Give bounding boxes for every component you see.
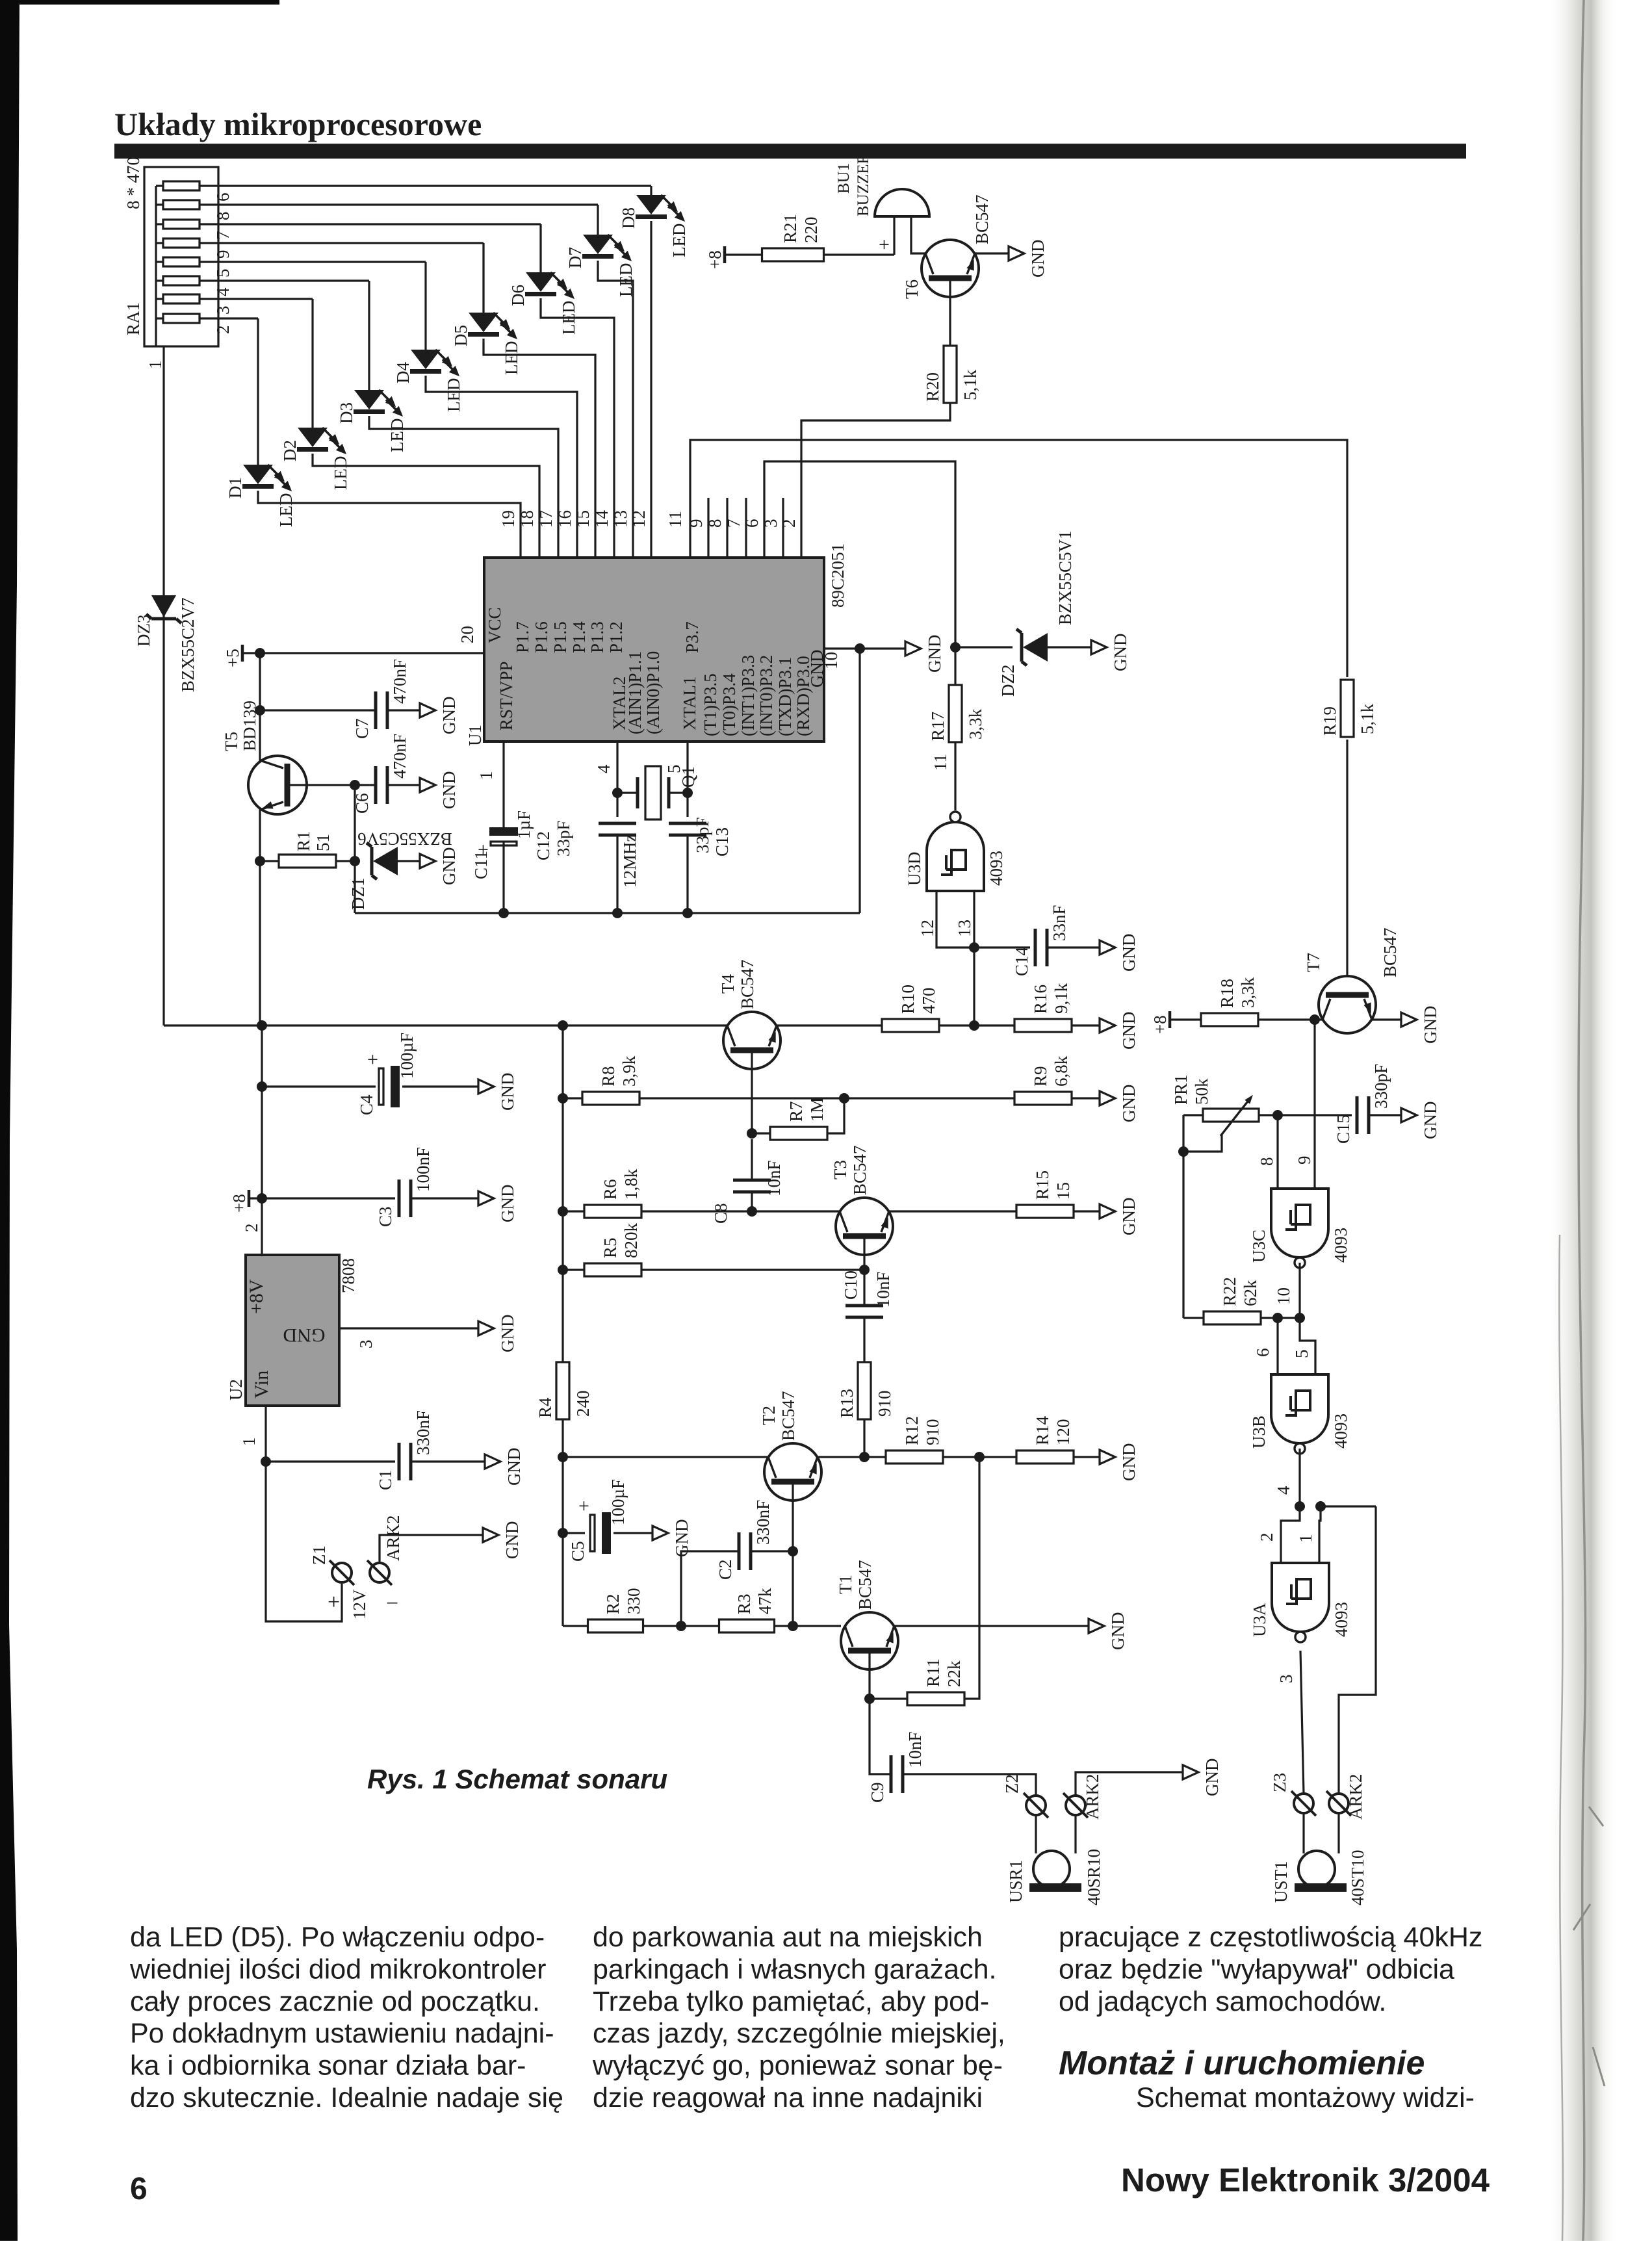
svg-text:C7: C7 xyxy=(352,718,372,739)
svg-text:BD139: BD139 xyxy=(240,701,259,751)
svg-text:910: 910 xyxy=(875,1391,894,1417)
svg-text:VCC: VCC xyxy=(485,607,504,643)
svg-text:od jadących samochodów.: od jadących samochodów. xyxy=(1059,1986,1386,2017)
svg-text:R22: R22 xyxy=(1220,1277,1239,1306)
svg-text:C14: C14 xyxy=(1012,946,1031,976)
svg-text:470nF: 470nF xyxy=(390,734,409,779)
svg-text:(T0)P3.4: (T0)P3.4 xyxy=(719,673,739,736)
svg-text:LED: LED xyxy=(444,378,463,412)
svg-text:GND: GND xyxy=(1119,1085,1139,1123)
svg-text:R21: R21 xyxy=(781,214,800,243)
svg-text:R17: R17 xyxy=(928,712,948,741)
svg-text:C15: C15 xyxy=(1334,1115,1353,1144)
svg-text:BUZZER: BUZZER xyxy=(855,153,872,216)
svg-text:470nF: 470nF xyxy=(390,659,409,704)
svg-text:10nF: 10nF xyxy=(905,1731,925,1768)
svg-text:DZ3: DZ3 xyxy=(134,615,153,647)
svg-text:330: 330 xyxy=(624,1588,643,1615)
svg-text:Z2: Z2 xyxy=(1002,1774,1022,1794)
svg-text:D7: D7 xyxy=(565,247,585,268)
svg-text:89C2051: 89C2051 xyxy=(828,543,847,608)
svg-text:R8: R8 xyxy=(599,1066,618,1087)
svg-text:(TXD)P3.1: (TXD)P3.1 xyxy=(775,657,795,736)
svg-text:Q1: Q1 xyxy=(678,766,698,788)
svg-text:18: 18 xyxy=(517,510,537,528)
svg-text:R4: R4 xyxy=(536,1397,555,1418)
svg-text:Rys. 1 Schemat sonaru: Rys. 1 Schemat sonaru xyxy=(367,1764,667,1794)
svg-text:D6: D6 xyxy=(508,285,528,306)
svg-text:RA1: RA1 xyxy=(123,302,143,335)
svg-text:1: 1 xyxy=(1296,1534,1315,1543)
svg-text:BC547: BC547 xyxy=(850,1145,870,1195)
svg-text:pracujące z częstotliwością 40: pracujące z częstotliwością 40kHz xyxy=(1059,1922,1482,1953)
svg-text:13: 13 xyxy=(955,920,974,937)
svg-text:1: 1 xyxy=(146,361,165,370)
svg-text:1µF: 1µF xyxy=(514,810,534,839)
svg-text:2: 2 xyxy=(1257,1533,1276,1542)
svg-text:LED: LED xyxy=(502,341,521,375)
svg-text:BZX55C2V7: BZX55C2V7 xyxy=(178,597,198,692)
svg-text:40ST10: 40ST10 xyxy=(1348,1850,1367,1905)
svg-text:ARK2: ARK2 xyxy=(1083,1773,1102,1820)
svg-text:6: 6 xyxy=(130,2172,148,2206)
svg-text:BZX55C5V1: BZX55C5V1 xyxy=(1055,530,1075,625)
svg-text:16: 16 xyxy=(555,510,574,528)
svg-text:USR1: USR1 xyxy=(1006,1860,1026,1903)
svg-text:+5: +5 xyxy=(223,649,242,667)
svg-text:LED: LED xyxy=(387,419,407,452)
svg-text:7808: 7808 xyxy=(339,1258,358,1293)
svg-text:GND: GND xyxy=(1119,1443,1139,1482)
svg-text:40SR10: 40SR10 xyxy=(1084,1849,1103,1905)
svg-text:5: 5 xyxy=(1292,1350,1311,1359)
svg-text:dzo skutecznie. Idealnie nadaj: dzo skutecznie. Idealnie nadaje się xyxy=(130,2082,563,2113)
svg-text:D3: D3 xyxy=(337,402,356,424)
svg-text:C5: C5 xyxy=(568,1541,587,1562)
svg-text:10: 10 xyxy=(1274,1287,1293,1305)
svg-text:LED: LED xyxy=(276,493,296,527)
svg-text:GND: GND xyxy=(504,1448,524,1486)
svg-text:1: 1 xyxy=(239,1438,259,1447)
svg-text:+: + xyxy=(578,1495,589,1517)
svg-text:33pF: 33pF xyxy=(693,817,712,853)
svg-text:C1: C1 xyxy=(376,1469,395,1490)
svg-text:parkingach i własnych garażach: parkingach i własnych garażach. xyxy=(593,1954,996,1985)
svg-text:U1: U1 xyxy=(465,725,485,746)
svg-text:15: 15 xyxy=(573,510,593,528)
svg-text:U2: U2 xyxy=(226,1379,246,1400)
svg-text:oraz będzie "wyłapywał" odbici: oraz będzie "wyłapywał" odbicia xyxy=(1059,1954,1454,1985)
svg-text:2: 2 xyxy=(242,1224,261,1233)
svg-text:ARK2: ARK2 xyxy=(383,1515,403,1561)
svg-text:UST1: UST1 xyxy=(1271,1861,1291,1903)
svg-text:T7: T7 xyxy=(1304,953,1323,972)
svg-text:Nowy Elektronik 3/2004: Nowy Elektronik 3/2004 xyxy=(1121,2161,1490,2199)
svg-text:XTAL2: XTAL2 xyxy=(610,677,629,730)
svg-text:P3.7: P3.7 xyxy=(682,621,702,653)
svg-text:10nF: 10nF xyxy=(873,1271,893,1308)
svg-text:T6: T6 xyxy=(902,279,922,299)
svg-text:9,1k: 9,1k xyxy=(1052,983,1071,1014)
svg-text:T1: T1 xyxy=(836,1575,855,1594)
svg-text:9: 9 xyxy=(213,250,233,259)
svg-text:dzie reagował na inne nadajnik: dzie reagował na inne nadajniki xyxy=(593,2082,983,2113)
svg-text:C3: C3 xyxy=(376,1206,395,1227)
svg-text:BZX55C5V6: BZX55C5V6 xyxy=(357,829,452,849)
svg-text:Trzeba tylko pamiętać, aby pod: Trzeba tylko pamiętać, aby pod- xyxy=(593,1986,989,2017)
svg-text:GND: GND xyxy=(498,1185,517,1223)
svg-text:7: 7 xyxy=(213,231,233,240)
svg-text:C13: C13 xyxy=(712,827,732,857)
svg-text:330nF: 330nF xyxy=(753,1500,773,1545)
svg-text:Układy mikroprocesorowe: Układy mikroprocesorowe xyxy=(114,106,482,142)
svg-text:Vin: Vin xyxy=(251,1371,272,1399)
svg-text:(INT1)P3.3: (INT1)P3.3 xyxy=(738,655,758,736)
svg-text:R7: R7 xyxy=(786,1101,806,1122)
svg-text:820k: 820k xyxy=(621,1223,641,1259)
svg-text:13: 13 xyxy=(611,510,630,528)
svg-text:Z3: Z3 xyxy=(1270,1773,1289,1792)
svg-text:C12: C12 xyxy=(534,831,553,860)
svg-text:6,8k: 6,8k xyxy=(1052,1055,1071,1087)
svg-text:GND: GND xyxy=(1119,1012,1139,1050)
svg-text:GND: GND xyxy=(925,635,944,673)
svg-text:4093: 4093 xyxy=(1331,1413,1350,1449)
svg-text:D8: D8 xyxy=(619,207,638,229)
svg-text:3: 3 xyxy=(356,1340,376,1349)
svg-text:R18: R18 xyxy=(1217,979,1237,1008)
svg-text:2: 2 xyxy=(213,326,233,335)
svg-text:Schemat montażowy widzi-: Schemat montażowy widzi- xyxy=(1136,2082,1475,2113)
svg-text:47k: 47k xyxy=(755,1588,775,1614)
svg-text:P1.4: P1.4 xyxy=(569,621,589,653)
svg-text:R2: R2 xyxy=(603,1593,623,1614)
svg-text:(INT0)P3.2: (INT0)P3.2 xyxy=(756,655,776,736)
svg-text:T4: T4 xyxy=(718,974,738,994)
svg-text:12MHz: 12MHz xyxy=(620,834,639,888)
svg-text:R11: R11 xyxy=(923,1658,943,1687)
svg-text:ARK2: ARK2 xyxy=(1346,1773,1365,1820)
svg-text:GND: GND xyxy=(498,1073,517,1111)
svg-text:3,3k: 3,3k xyxy=(1238,977,1258,1008)
svg-text:cały proces zacznie od początk: cały proces zacznie od początku. xyxy=(130,1986,540,2017)
svg-text:C8: C8 xyxy=(711,1203,730,1224)
svg-text:8 * 470: 8 * 470 xyxy=(123,157,143,209)
svg-text:3: 3 xyxy=(1276,1675,1296,1684)
svg-text:DZ2: DZ2 xyxy=(998,665,1018,697)
svg-text:do parkowania aut na miejskich: do parkowania aut na miejskich xyxy=(593,1922,983,1953)
svg-text:ka i odbiornika sonar działa b: ka i odbiornika sonar działa bar- xyxy=(130,2050,526,2082)
svg-text:GND: GND xyxy=(1111,634,1130,672)
svg-text:P1.3: P1.3 xyxy=(587,621,607,653)
svg-text:1,8k: 1,8k xyxy=(621,1168,641,1200)
svg-text:4: 4 xyxy=(213,287,233,296)
svg-text:U3C: U3C xyxy=(1249,1230,1269,1263)
svg-text:+8: +8 xyxy=(1150,1015,1170,1034)
svg-text:R6: R6 xyxy=(600,1179,620,1200)
svg-text:220: 220 xyxy=(801,217,821,244)
svg-text:C10: C10 xyxy=(841,1270,860,1300)
svg-text:6: 6 xyxy=(1253,1348,1272,1358)
svg-text:14: 14 xyxy=(592,510,612,528)
svg-text:P1.5: P1.5 xyxy=(550,621,570,653)
svg-text:4093: 4093 xyxy=(1331,1228,1350,1263)
svg-text:R16: R16 xyxy=(1031,985,1050,1014)
svg-text:U3D: U3D xyxy=(905,852,924,886)
svg-text:GND: GND xyxy=(439,697,459,735)
svg-text:100nF: 100nF xyxy=(413,1147,433,1192)
svg-text:+8V: +8V xyxy=(246,1279,267,1314)
svg-text:8: 8 xyxy=(213,212,233,221)
svg-text:50k: 50k xyxy=(1192,1078,1211,1105)
svg-text:Po dokładnym ustawieniu nadajn: Po dokładnym ustawieniu nadajni- xyxy=(130,2018,554,2049)
svg-text:62k: 62k xyxy=(1241,1280,1260,1306)
svg-text:120: 120 xyxy=(1053,1419,1073,1446)
svg-text:11: 11 xyxy=(931,754,950,771)
svg-text:DZ1: DZ1 xyxy=(348,878,368,910)
svg-text:D5: D5 xyxy=(451,325,471,346)
svg-text:4093: 4093 xyxy=(1332,1602,1351,1637)
svg-text:5,1k: 5,1k xyxy=(961,369,980,400)
svg-text:T5: T5 xyxy=(222,732,241,751)
svg-text:9: 9 xyxy=(1295,1156,1314,1165)
svg-text:RST/VPP: RST/VPP xyxy=(497,661,516,730)
svg-text:6: 6 xyxy=(213,193,233,202)
svg-text:19: 19 xyxy=(498,510,518,528)
svg-text:17: 17 xyxy=(536,510,556,528)
svg-text:P1.2: P1.2 xyxy=(606,621,626,653)
svg-text:GND: GND xyxy=(1421,1102,1440,1140)
svg-text:1M: 1M xyxy=(807,1097,827,1122)
svg-text:12V: 12V xyxy=(350,1589,369,1619)
svg-text:LED: LED xyxy=(331,456,350,490)
svg-text:D4: D4 xyxy=(393,362,413,383)
svg-text:Z1: Z1 xyxy=(309,1545,329,1565)
svg-text:BC547: BC547 xyxy=(738,959,757,1009)
svg-text:C9: C9 xyxy=(868,1782,887,1803)
svg-text:wyłączyć go, ponieważ sonar bę: wyłączyć go, ponieważ sonar bę- xyxy=(592,2050,1003,2082)
svg-text:R3: R3 xyxy=(734,1593,754,1614)
svg-text:240: 240 xyxy=(573,1391,593,1417)
svg-text:T3: T3 xyxy=(831,1160,850,1180)
svg-text:3: 3 xyxy=(213,306,233,315)
svg-text:+: + xyxy=(367,1049,378,1070)
svg-text:R15: R15 xyxy=(1033,1170,1052,1200)
svg-text:GND: GND xyxy=(439,847,459,886)
svg-text:GND: GND xyxy=(502,1521,522,1560)
svg-text:330nF: 330nF xyxy=(413,1410,433,1455)
svg-text:10nF: 10nF xyxy=(764,1160,784,1196)
svg-text:+8: +8 xyxy=(229,1194,249,1213)
svg-text:33pF: 33pF xyxy=(554,820,573,857)
svg-text:GND: GND xyxy=(1421,1006,1440,1044)
svg-text:8: 8 xyxy=(1257,1157,1276,1167)
svg-text:P1.7: P1.7 xyxy=(513,621,532,653)
svg-text:910: 910 xyxy=(923,1419,942,1446)
svg-text:U3A: U3A xyxy=(1250,1603,1269,1637)
svg-text:330pF: 330pF xyxy=(1371,1064,1391,1109)
svg-text:10: 10 xyxy=(821,652,841,669)
svg-text:wiedniej ilości diod mikrokont: wiedniej ilości diod mikrokontroler xyxy=(129,1954,547,1985)
svg-text:GND: GND xyxy=(439,771,459,810)
svg-text:U3B: U3B xyxy=(1249,1415,1269,1449)
svg-text:+: + xyxy=(328,1590,340,1614)
svg-text:GND: GND xyxy=(498,1315,517,1353)
svg-text:GND: GND xyxy=(1202,1759,1222,1797)
svg-text:5: 5 xyxy=(213,269,233,278)
svg-text:P1.6: P1.6 xyxy=(532,621,551,653)
svg-text:R10: R10 xyxy=(898,985,918,1014)
svg-text:R12: R12 xyxy=(902,1416,922,1445)
svg-text:BU1: BU1 xyxy=(835,163,853,194)
svg-text:100µF: 100µF xyxy=(608,1479,628,1525)
svg-text:33nF: 33nF xyxy=(1050,905,1069,941)
svg-text:GND: GND xyxy=(283,1324,326,1346)
svg-text:da LED (D5). Po włączeniu odpo: da LED (D5). Po włączeniu odpo- xyxy=(130,1922,545,1953)
svg-text:BC547: BC547 xyxy=(1380,927,1400,977)
svg-text:D1: D1 xyxy=(226,477,245,498)
svg-text:GND: GND xyxy=(1119,934,1139,972)
svg-text:12: 12 xyxy=(629,510,649,528)
svg-text:22k: 22k xyxy=(944,1660,964,1687)
svg-text:+: + xyxy=(879,234,890,255)
svg-text:BC547: BC547 xyxy=(855,1560,875,1610)
svg-text:20: 20 xyxy=(458,626,477,643)
svg-text:+8: +8 xyxy=(705,250,725,269)
svg-text:11: 11 xyxy=(665,511,685,528)
svg-text:GND: GND xyxy=(1119,1198,1139,1236)
svg-text:LED: LED xyxy=(669,224,689,257)
svg-text:4: 4 xyxy=(594,764,613,773)
svg-text:4: 4 xyxy=(1274,1486,1293,1495)
svg-text:100µF: 100µF xyxy=(397,1033,417,1079)
svg-text:12: 12 xyxy=(918,920,937,937)
svg-text:BC547: BC547 xyxy=(779,1391,798,1441)
svg-text:R14: R14 xyxy=(1033,1415,1052,1445)
svg-text:R13: R13 xyxy=(837,1389,857,1418)
svg-text:(T1)P3.5: (T1)P3.5 xyxy=(701,673,720,736)
svg-text:GND: GND xyxy=(1108,1612,1128,1651)
svg-text:Montaż i uruchomienie: Montaż i uruchomienie xyxy=(1059,2044,1425,2082)
svg-text:(AIN0)P1.0: (AIN0)P1.0 xyxy=(643,651,663,734)
svg-text:C4: C4 xyxy=(357,1094,376,1115)
svg-text:15: 15 xyxy=(1053,1182,1073,1200)
svg-text:T2: T2 xyxy=(759,1406,779,1425)
svg-text:XTAL1: XTAL1 xyxy=(680,677,699,730)
svg-text:BC547: BC547 xyxy=(972,194,992,244)
svg-text:GND: GND xyxy=(1028,240,1048,278)
svg-text:470: 470 xyxy=(919,988,938,1014)
svg-text:3,9k: 3,9k xyxy=(619,1055,639,1087)
svg-text:C2: C2 xyxy=(716,1559,735,1580)
svg-text:czas jazdy, szczególnie miejsk: czas jazdy, szczególnie miejskiej, xyxy=(593,2018,1005,2049)
svg-text:5,1k: 5,1k xyxy=(1358,703,1377,734)
svg-text:R5: R5 xyxy=(600,1237,620,1258)
svg-text:D2: D2 xyxy=(280,440,300,461)
svg-text:C11: C11 xyxy=(471,851,491,879)
svg-text:PR1: PR1 xyxy=(1171,1074,1191,1105)
svg-text:−: − xyxy=(386,1592,398,1616)
svg-text:R9: R9 xyxy=(1031,1066,1050,1087)
svg-text:1: 1 xyxy=(476,771,496,780)
svg-text:4093: 4093 xyxy=(987,851,1006,886)
svg-text:R19: R19 xyxy=(1320,706,1339,736)
svg-text:R20: R20 xyxy=(923,372,942,402)
svg-text:3,3k: 3,3k xyxy=(966,708,985,740)
svg-text:51: 51 xyxy=(313,834,333,851)
svg-text:R1: R1 xyxy=(294,831,313,851)
